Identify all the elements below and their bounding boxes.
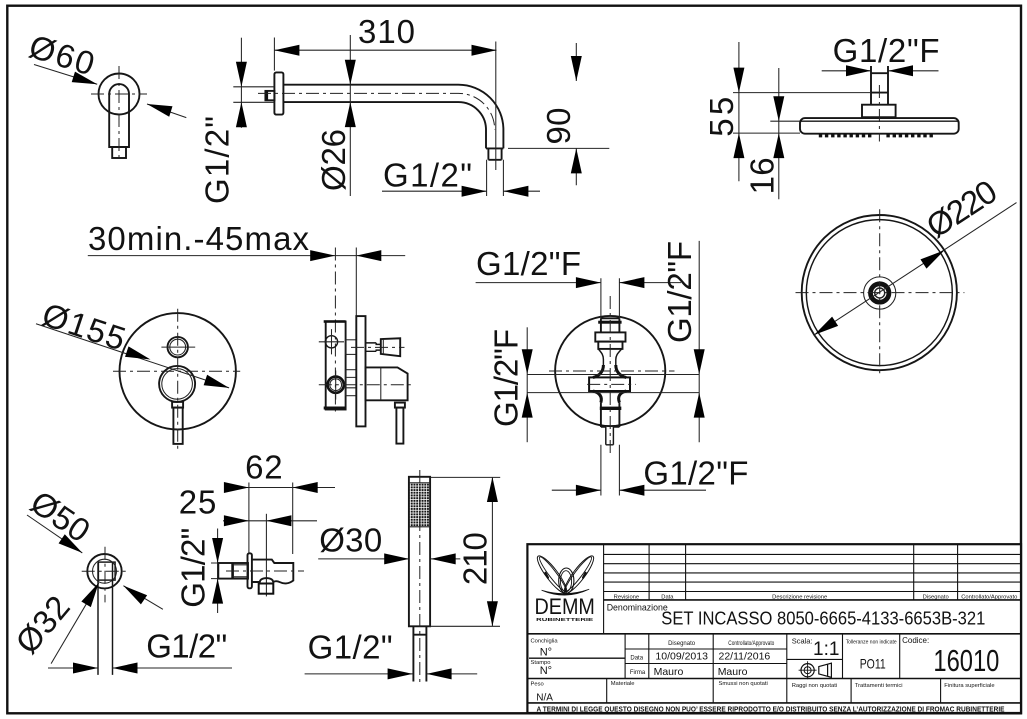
extension line body bottom: [429, 625, 500, 627]
svg-text:1:1: 1:1: [813, 639, 839, 660]
svg-text:Disegnato: Disegnato: [923, 594, 949, 600]
denominazione row bottom line: [527, 633, 1021, 635]
arrow 90 top: [571, 56, 582, 81]
head outer circle: [802, 215, 957, 370]
svg-text:N/A: N/A: [536, 692, 553, 703]
arrow 90 bottom: [571, 148, 582, 173]
arm axis centerline: [258, 93, 495, 129]
top pipe: [601, 318, 620, 332]
head disc: [800, 118, 959, 134]
arrow right top: [694, 349, 705, 374]
svg-text:Data: Data: [661, 594, 674, 600]
extension line wall plane: [248, 483, 250, 554]
extension line head top: [430, 476, 500, 478]
diverter knob inner circle: [170, 339, 186, 355]
cross inner centerline: [587, 383, 636, 385]
arrow 30-45 left: [310, 250, 335, 261]
body top cap: [324, 320, 346, 323]
arrow Ø30 right: [431, 553, 456, 564]
stem shoulder thick line: [231, 563, 234, 578]
leader line Ø60: [34, 65, 186, 118]
extension line disc bottom: [733, 132, 800, 134]
body centerline extension: [334, 248, 336, 413]
projection symbol circle: [801, 664, 814, 677]
hub inner circle: [875, 288, 885, 298]
wall outlet holder side view: [175, 449, 336, 614]
wall elbow front view: [25, 27, 186, 161]
dimension G1/2 outlet line: [382, 190, 540, 192]
logo wing left inner: [537, 555, 568, 593]
dimension 90 line: [575, 43, 577, 185]
extension line disc lip: [770, 120, 800, 122]
svg-text:62: 62: [245, 449, 283, 486]
escutcheon circle Ø60: [99, 74, 140, 115]
union outer circle: [87, 554, 121, 588]
arm wall stub G1/2: [265, 91, 274, 100]
logo wing tip right: [583, 573, 586, 578]
arrow 310 left: [274, 45, 299, 56]
dimension Ø220 line: [814, 203, 1016, 335]
svg-text:Conchiglia: Conchiglia: [531, 639, 559, 645]
dimension 210 line: [491, 477, 493, 626]
logo wing left outer: [533, 553, 570, 597]
dimension G1/2F line: [822, 70, 939, 72]
diverter knob stem: [366, 343, 381, 351]
top flare step 2: [598, 342, 622, 349]
top flare step 1: [595, 332, 625, 341]
port lines horizontal: [527, 375, 699, 393]
top pipe extension lines: [601, 278, 620, 318]
svg-text:RUBINETTERIE: RUBINETTERIE: [536, 617, 594, 623]
valve cross bar: [589, 377, 630, 391]
arrow holder top: [212, 538, 223, 563]
arrow Ø32: [81, 580, 103, 607]
svg-text:G1/2"F: G1/2"F: [833, 32, 940, 69]
arrow 25 left: [224, 515, 249, 526]
handle base outer circle: [159, 366, 195, 402]
extension line stem base: [733, 92, 871, 94]
revision table horizontals: [604, 554, 1021, 591]
svg-text:G1/2": G1/2": [383, 157, 472, 194]
arrow 210 bottom: [487, 601, 498, 626]
diverter knob: [381, 338, 400, 356]
logo center loop inner: [560, 571, 571, 592]
elbow centerline horizontal: [91, 93, 147, 95]
svg-text:Controllato/Approvato: Controllato/Approvato: [728, 641, 775, 647]
arrow 210 top: [487, 477, 498, 502]
revision table verticals: [604, 544, 958, 634]
arm pipe outline: [283, 85, 503, 149]
holder stem: [218, 563, 248, 579]
arrow union right: [113, 663, 138, 674]
pin axis extension line: [265, 514, 267, 597]
holder body: [252, 560, 293, 584]
svg-text:Raggi non quotati: Raggi non quotati: [792, 683, 837, 689]
head centerline vertical: [879, 209, 881, 374]
handshower centerline: [419, 470, 421, 684]
leader line Ø32: [51, 583, 99, 664]
handle shaft: [173, 408, 182, 444]
svg-text:Mauro: Mauro: [654, 666, 684, 678]
svg-text:16: 16: [744, 157, 781, 194]
mid table horizontals: [625, 649, 842, 664]
handle nub side: [395, 403, 405, 408]
arrow outlet left: [462, 186, 487, 197]
arrow outlet right: [503, 186, 528, 197]
upper port cross lines: [319, 329, 344, 354]
dimension 55 line: [738, 42, 740, 181]
union square box: [98, 562, 115, 580]
peso row top line: [527, 678, 1021, 680]
svg-text:G1/2": G1/2": [199, 116, 236, 204]
svg-text:G1/2": G1/2": [175, 528, 212, 608]
rear centerline vertical: [609, 296, 611, 455]
arrow Ø60 lower: [145, 99, 172, 117]
svg-text:G1/2": G1/2": [146, 628, 227, 665]
arrow 62 left: [224, 482, 249, 493]
arrow 310 right: [472, 45, 497, 56]
stub extension lines: [233, 87, 274, 103]
svg-text:Scala:: Scala:: [792, 636, 813, 645]
arrow left top: [522, 349, 533, 374]
svg-text:25: 25: [179, 484, 217, 521]
svg-text:30min.-45max: 30min.-45max: [88, 220, 310, 257]
arrow G1/2 up: [236, 102, 247, 127]
svg-text:16010: 16010: [933, 643, 999, 678]
flange extension line: [273, 38, 275, 71]
svg-text:Trattamenti termici: Trattamenti termici: [855, 683, 903, 689]
elbow centerline vertical: [118, 66, 120, 161]
arrow holder bottom: [212, 579, 223, 604]
dimension left G1/2F line: [526, 327, 528, 442]
arrow G1/2F right: [888, 65, 913, 76]
body bottom cap: [324, 407, 346, 410]
mid table verticals: [625, 634, 900, 679]
cartridge inner line: [380, 367, 382, 400]
svg-text:N°: N°: [540, 665, 552, 677]
arrow G1/2 down: [236, 62, 247, 87]
lower port vertical line: [335, 371, 337, 400]
handle nub: [172, 402, 183, 408]
arrow 30-45 right: [356, 250, 381, 261]
handle base inner circle: [162, 369, 193, 400]
head centerline horizontal: [796, 292, 965, 294]
knob inner line: [382, 339, 384, 354]
title block: [527, 544, 1021, 713]
stem extension lines: [211, 563, 218, 579]
dimension 16 line: [778, 68, 780, 199]
hourglass neck: [598, 349, 621, 367]
svg-text:Data: Data: [630, 656, 643, 662]
head inner circle: [806, 220, 952, 366]
head connector block: [862, 105, 896, 118]
disc nozzles: [821, 134, 932, 138]
dimension right G1/2F line: [698, 241, 700, 442]
svg-text:G1/2"F: G1/2"F: [488, 329, 525, 427]
trim centerline vertical: [177, 309, 179, 449]
svg-text:Peso: Peso: [531, 681, 544, 687]
knob axis centerline: [351, 346, 405, 348]
arrow Ø26 down: [345, 60, 356, 85]
dimension G1/2 holder line: [217, 529, 219, 614]
dimension 62 line: [224, 487, 335, 489]
head centerline: [878, 85, 880, 142]
svg-text:Revisione: Revisione: [614, 594, 639, 600]
arrow left bottom: [522, 393, 533, 418]
arrow hand right: [427, 668, 452, 679]
svg-text:Finitura superficiale: Finitura superficiale: [944, 683, 994, 689]
arrow Ø220 upper: [920, 246, 947, 269]
shower arm side view: [199, 13, 610, 204]
valve body column: [326, 322, 346, 410]
logo wing right outer: [560, 553, 597, 597]
dimension 310 line: [274, 49, 496, 51]
arrow Ø50 lower: [120, 581, 147, 604]
spray texture: [410, 484, 429, 527]
head cap line: [409, 482, 430, 484]
svg-text:DEMM: DEMM: [535, 594, 595, 619]
diverter tick line: [161, 346, 195, 348]
bottom pipe: [601, 403, 620, 428]
title block outer frame: [527, 544, 1021, 713]
disclaimer row top line: [527, 702, 1021, 704]
handle shaft side: [396, 408, 403, 444]
handshower connector: [413, 626, 426, 681]
arrow 62 right: [293, 482, 318, 493]
svg-text:G1/2"F: G1/2"F: [661, 241, 698, 343]
arrow 25 right: [266, 515, 291, 526]
arrow 55 top: [733, 68, 744, 93]
bottom row verticals: [607, 679, 941, 703]
dimension top G1/2F line: [476, 282, 681, 284]
disc lip line: [801, 120, 958, 122]
lower port inner circle: [330, 379, 342, 391]
arrow Ø30 left: [384, 553, 409, 564]
stub shoulder thick line: [266, 91, 268, 100]
elbow pipe body: [109, 84, 129, 147]
arrow right bottom: [694, 393, 705, 418]
mixer trim front view Ø155: [36, 296, 240, 449]
arrow Ø220 lower: [811, 317, 838, 340]
svg-text:210: 210: [457, 532, 494, 585]
svg-text:22/11/2016: 22/11/2016: [719, 651, 771, 663]
lower connector block: [346, 370, 357, 396]
arrow 16 top: [773, 96, 784, 121]
svg-text:G1/2": G1/2": [308, 629, 393, 666]
svg-text:Firma: Firma: [630, 670, 646, 676]
top pipe cap band: [598, 321, 621, 324]
handshower body: [409, 477, 430, 627]
holder axis centerline: [226, 570, 304, 572]
arrow top right: [619, 277, 644, 288]
svg-text:Ø26: Ø26: [315, 129, 352, 191]
revision header row line: [604, 599, 1021, 601]
projection symbol inner circle: [804, 667, 811, 674]
svg-text:Ø30: Ø30: [319, 522, 382, 559]
svg-text:Disegnato: Disegnato: [668, 641, 696, 647]
dimension bottom G1/2F line: [552, 489, 706, 491]
dimension G1/2 union line: [48, 667, 232, 669]
svg-text:Denominazione: Denominazione: [607, 602, 668, 612]
dimension G1/2 handshower line: [305, 673, 478, 675]
svg-text:Descrizione revisione: Descrizione revisione: [772, 594, 827, 600]
conchiglia divider line: [529, 657, 625, 659]
holder flange: [248, 553, 252, 588]
90 extension line: [508, 147, 609, 149]
handshower view: [305, 470, 501, 684]
svg-text:10/09/2013: 10/09/2013: [655, 651, 708, 663]
dimension G1/2 left line: [240, 38, 242, 128]
dimension 25 line: [223, 520, 317, 522]
mixer valve side view: [88, 220, 413, 444]
svg-text:90: 90: [540, 108, 577, 145]
svg-text:SET INCASSO 8050-6665-4133-665: SET INCASSO 8050-6665-4133-6653B-321: [661, 608, 985, 629]
svg-text:Controllato/Approvato: Controllato/Approvato: [961, 594, 1017, 600]
hub dark ring: [871, 284, 889, 302]
extension line body end: [292, 483, 294, 555]
main axis centerline: [319, 384, 413, 386]
arrow hand left: [388, 668, 413, 679]
valve fillet bottom-left: [593, 391, 601, 403]
dimension Ø30 line: [318, 558, 460, 560]
rough-in circle: [555, 316, 665, 426]
svg-text:N°: N°: [540, 647, 552, 659]
svg-text:G1/2"F: G1/2"F: [476, 245, 581, 282]
projection symbol cone: [819, 663, 832, 677]
texture bottom line: [409, 526, 430, 528]
mixer rough-in rear view: [476, 241, 749, 496]
arrow bottom left: [576, 485, 601, 496]
arrow Ø155 lower: [204, 375, 231, 393]
arrow G1/2F left: [846, 65, 871, 76]
bottom nib: [601, 427, 620, 445]
svg-text:Materiale: Materiale: [611, 681, 635, 687]
valve fillet bottom-right: [619, 391, 627, 403]
dimension 30-45 line: [88, 255, 405, 257]
ceiling shower head side view: [703, 32, 959, 199]
cartridge housing: [366, 367, 408, 400]
arrow 55 bottom: [733, 133, 744, 158]
stem thread lines: [233, 565, 248, 577]
valve fillet top-left: [593, 365, 603, 378]
rear centerline horizontal: [549, 370, 675, 372]
wall union front view Ø50: [8, 483, 232, 675]
svg-text:A TERMINI DI LEGGE QUESTO DISE: A TERMINI DI LEGGE QUESTO DISEGNO NON PU…: [537, 705, 1005, 714]
dimension Ø26 line: [349, 35, 351, 196]
svg-text:Mauro: Mauro: [718, 666, 748, 678]
connector step lines: [346, 377, 357, 387]
union centerline vertical: [104, 547, 106, 603]
arrow top left: [576, 277, 601, 288]
nib extension lines: [487, 160, 504, 196]
logo center loop outer: [559, 568, 574, 593]
arrow Ø60 upper: [72, 72, 99, 90]
leader line Ø50: [27, 515, 163, 609]
arrow bottom right: [619, 485, 644, 496]
trim centerline horizontal: [113, 370, 240, 372]
arm outlet nib: [486, 148, 503, 159]
svg-text:Codice:: Codice:: [902, 636, 929, 645]
head stem: [871, 66, 888, 105]
bottom pipe cap band: [600, 407, 622, 410]
hub circle: [864, 277, 896, 309]
svg-text:G1/2"F: G1/2"F: [643, 455, 748, 492]
elbow outlet nib: [112, 147, 126, 158]
shower head face view Ø220: [796, 172, 1017, 374]
upper port circle: [325, 336, 337, 348]
svg-text:PO11: PO11: [860, 656, 886, 672]
arm wall flange: [274, 72, 283, 114]
diverter port stub: [346, 340, 357, 355]
svg-text:Tolleranze non indicate: Tolleranze non indicate: [846, 639, 897, 645]
arrow Ø155 upper: [125, 346, 152, 364]
plate edge extension line: [355, 248, 357, 317]
svg-text:Smussi non quotati: Smussi non quotati: [719, 681, 768, 687]
arm vertical centerline / 310 extension: [495, 42, 497, 171]
logo wing right inner: [563, 555, 594, 593]
arrow 16 bottom: [773, 133, 784, 158]
union centerline horizontal: [82, 570, 128, 572]
leader line Ø155: [36, 324, 229, 388]
logo bowl: [542, 589, 590, 595]
trim plate circle: [120, 313, 236, 429]
union stem lines: [98, 563, 113, 675]
logo wing tip left: [545, 573, 548, 578]
union inner circle: [93, 559, 117, 583]
svg-text:310: 310: [358, 13, 415, 50]
bottom extension lines: [601, 445, 620, 496]
diverter knob outer circle: [168, 337, 188, 357]
projection symbol crosshair: [799, 661, 817, 679]
wall plate: [356, 316, 365, 426]
holder nut: [259, 584, 274, 594]
arrow Ø26 up: [345, 102, 356, 127]
arrow union left: [73, 663, 98, 674]
arrow Ø50 upper: [59, 534, 86, 557]
valve fillet top-right: [616, 365, 626, 378]
lower port outer circle: [328, 377, 344, 393]
